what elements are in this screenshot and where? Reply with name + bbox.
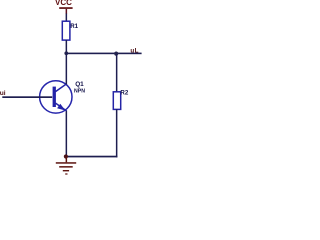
node junction collector tee [64,51,68,55]
node junction at R2 top [114,52,118,56]
wire collector vertical [66,54,68,84]
wire R2 to bottom rail [116,109,118,157]
svg-text:R1: R1 [70,23,78,30]
ground stub [66,157,68,162]
wire bottom rail [66,156,118,158]
wire VCC stub [66,9,68,14]
transistor Q1 base bar [53,87,56,107]
resistor R1 [62,21,70,40]
ground bar 2 [59,166,72,168]
svg-text:uL: uL [130,47,139,54]
wire base input [2,96,52,98]
wire node to R2 [116,54,118,93]
svg-text:ui: ui [0,90,6,97]
transistor Q1 emitter arrow [57,104,65,111]
ground bar 3 [63,170,69,171]
resistor R2 [113,92,120,110]
power symbol VCC bar [59,7,72,9]
transistor Q1 circle [40,81,72,113]
svg-text:NPN: NPN [74,89,85,95]
svg-text:VCC: VCC [55,0,72,7]
node junction emitter/rail/ground [64,154,68,158]
wire VCC to R1 [66,14,68,23]
transistor Q1 collector lead [56,84,67,92]
ground bar 4 [65,173,67,174]
wire R1 to collector node [66,40,68,54]
wire emitter down [66,110,68,156]
ground bar 1 [56,162,76,164]
svg-text:R2: R2 [120,90,128,97]
svg-text:Q1: Q1 [75,81,84,88]
transistor Q1 emitter lead [56,103,67,111]
wire output horizontal [66,53,142,55]
